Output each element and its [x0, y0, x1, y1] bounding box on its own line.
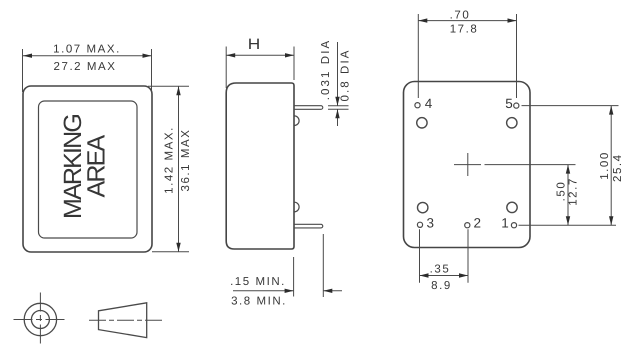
pin detail end view — [14, 293, 67, 347]
svg-text:1.42 MAX.: 1.42 MAX. — [164, 126, 176, 194]
bottom view pin 4 — [415, 96, 433, 111]
bottom view standoff bottom-left — [418, 202, 428, 212]
bottom view standoff top-right — [507, 118, 517, 128]
dimension 1.00 / 25.4 — [599, 106, 624, 226]
svg-text:4: 4 — [425, 96, 433, 111]
bottom view center mark — [454, 153, 481, 176]
dimension height 1.42 MAX / 36.1 MAX — [148, 86, 192, 252]
svg-text:H: H — [248, 36, 261, 53]
dimension pin length .15 MIN / 3.8 MIN — [230, 234, 342, 308]
svg-text:2: 2 — [473, 216, 481, 231]
dimension case height H — [226, 36, 294, 88]
bottom view center extension line — [485, 164, 576, 166]
svg-text:3.8 MIN.: 3.8 MIN. — [231, 296, 287, 308]
front view outer case — [23, 86, 152, 252]
svg-text:.50: .50 — [556, 181, 568, 202]
svg-text:12.7: 12.7 — [568, 177, 580, 206]
dimension pin spacing .70 / 17.8 — [418, 10, 516, 99]
svg-text:1.00: 1.00 — [599, 151, 611, 180]
svg-text:AREA: AREA — [83, 134, 111, 197]
svg-text:8.9: 8.9 — [431, 280, 452, 292]
bottom view standoff top-left — [417, 118, 427, 128]
bottom view pin 5 — [505, 96, 519, 111]
dimension pin spacing .35 / 8.9 — [420, 229, 469, 292]
svg-text:36.1 MAX: 36.1 MAX — [180, 129, 192, 192]
side view upper pin boss — [294, 116, 299, 126]
bottom view pin 3 — [417, 216, 434, 231]
svg-text:.15 MIN.: .15 MIN. — [230, 276, 286, 288]
svg-text:1: 1 — [501, 216, 509, 231]
pin 5 extension line — [522, 105, 619, 107]
side view lower pin boss — [294, 202, 299, 212]
side view lower pin — [294, 224, 323, 228]
side view case outline — [226, 83, 294, 249]
pin 1 extension line — [519, 224, 617, 226]
bottom view pin 2 — [465, 216, 481, 231]
svg-text:5: 5 — [505, 96, 513, 111]
bottom view pin 1 — [501, 216, 516, 231]
svg-text:1.07 MAX.: 1.07 MAX. — [53, 44, 121, 56]
bottom view case outline — [404, 82, 531, 248]
front view marking-area border — [39, 101, 138, 238]
svg-text:.031 DIA: .031 DIA — [320, 39, 332, 101]
svg-text:17.8: 17.8 — [450, 24, 479, 36]
side view upper pin — [294, 106, 323, 110]
dimension pin diameter .031 DIA / 0.8 DIA — [320, 39, 352, 126]
bottom view standoff bottom-right — [507, 202, 517, 212]
svg-text:.70: .70 — [450, 10, 471, 22]
svg-text:0.8 DIA: 0.8 DIA — [340, 48, 352, 101]
front view MARKING AREA label — [59, 115, 111, 219]
svg-text:3: 3 — [427, 216, 435, 231]
pin detail side view cone — [89, 303, 164, 338]
svg-text:27.2 MAX: 27.2 MAX — [54, 61, 117, 73]
dimension .50 / 12.7 — [556, 165, 580, 226]
dimension width 1.07 MAX / 27.2 MAX — [23, 44, 152, 93]
svg-text:.35: .35 — [430, 264, 451, 276]
svg-text:25.4: 25.4 — [612, 153, 624, 182]
